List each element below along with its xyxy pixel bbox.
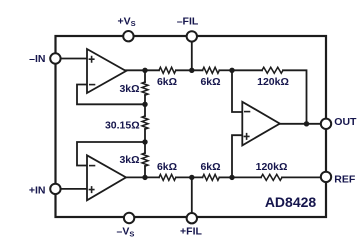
wire A1 feedback (- input to node below 3k) (77, 85, 145, 105)
pin -IN (50, 53, 60, 63)
resistor 6k ohm top-left (159, 67, 176, 73)
wire 120k top right lead down to output node (283, 70, 307, 124)
op-amp A3 plus sign (244, 133, 250, 140)
op-amp A3 minus sign (244, 111, 250, 113)
svg-text:6kΩ: 6kΩ (200, 161, 220, 173)
wire between 3k and gain node (144, 95, 146, 116)
junction node A1 feedback (142, 102, 147, 107)
wire +IN to A2 + input (61, 188, 88, 190)
pin +FIL (187, 213, 197, 223)
svg-text:AD8428: AD8428 (265, 194, 317, 210)
junction node A2 out / 3k (142, 175, 147, 180)
outer boundary box (56, 36, 327, 217)
pin +IN (50, 184, 60, 194)
svg-text:6kΩ: 6kΩ (200, 76, 220, 88)
wire 120k bottom left lead (232, 176, 261, 178)
op-amp A1 plus sign (89, 56, 95, 63)
resistor 3k ohm lower (142, 153, 148, 166)
junction node A2 feedback (142, 139, 147, 144)
svg-text:120kΩ: 120kΩ (256, 161, 288, 173)
svg-text:6kΩ: 6kΩ (157, 161, 177, 173)
wire bottom rail A2 output (125, 176, 159, 178)
op-amp A2 (87, 155, 126, 200)
svg-text:+FIL: +FIL (180, 226, 202, 238)
wire -IN to A1 + input (61, 58, 88, 60)
wire 120k top left lead (232, 69, 262, 71)
resistor 6k ohm bottom-right (203, 174, 220, 180)
wire A2 feedback (- input to node above 3k) (77, 142, 145, 166)
junction node A3 minus (229, 68, 234, 73)
resistor 120k ohm bottom (261, 174, 282, 180)
svg-text:6kΩ: 6kΩ (157, 76, 177, 88)
pin REF (321, 172, 331, 182)
svg-text:OUT: OUT (334, 116, 357, 128)
op-amp A1 minus sign (89, 84, 95, 86)
pin -FIL (187, 31, 197, 41)
junction node output (304, 121, 309, 126)
resistor 6k ohm top-right (203, 67, 220, 73)
svg-text:+VS: +VS (118, 15, 136, 28)
svg-text:3kΩ: 3kΩ (119, 83, 139, 95)
resistor 120k ohm top (262, 67, 283, 73)
resistor 30.15 ohm gain (142, 116, 148, 129)
svg-text:3kΩ: 3kΩ (119, 154, 139, 166)
wire A3 plus input branch (232, 135, 242, 177)
svg-text:REF: REF (334, 174, 356, 186)
wire A3 output to OUT (280, 123, 321, 125)
wire -FIL stub (191, 42, 193, 71)
pin OUT (321, 119, 331, 129)
pin +VS (123, 31, 133, 41)
svg-text:–IN: –IN (29, 53, 45, 65)
wire top rail A1 output (125, 69, 159, 71)
op-amp A2 plus sign (89, 186, 95, 193)
wire mid column top lead (144, 70, 146, 82)
wire lower 3k to bottom rail (144, 166, 146, 177)
svg-text:30.15Ω: 30.15Ω (105, 120, 140, 132)
svg-text:+IN: +IN (29, 185, 46, 197)
junction node A3 plus (229, 175, 234, 180)
junction node -FIL / rail (189, 68, 194, 73)
op-amp A2 minus sign (89, 165, 95, 167)
wire between gain node and lower 3k (144, 129, 146, 153)
pin -VS (124, 213, 134, 223)
op-amp A1 (87, 49, 126, 93)
wire 120k bottom to REF (282, 176, 321, 178)
wire A3 minus input branch (232, 70, 242, 112)
op-amp A3 (242, 102, 279, 146)
wire bottom rail between 6k resistors (176, 176, 203, 178)
resistor 3k ohm upper (142, 82, 148, 95)
svg-text:–FIL: –FIL (177, 15, 199, 27)
svg-text:–VS: –VS (117, 226, 135, 239)
resistor 6k ohm bottom-left (159, 174, 176, 180)
wire bottom rail to A3 plus node (220, 176, 233, 178)
wire top rail to A3 minus node (220, 69, 233, 71)
junction node A1 out / 3k (142, 68, 147, 73)
svg-text:120kΩ: 120kΩ (257, 76, 289, 88)
wire +FIL stub (191, 177, 193, 213)
wire top rail between 6k resistors (176, 69, 203, 71)
junction node +FIL / rail (189, 175, 194, 180)
